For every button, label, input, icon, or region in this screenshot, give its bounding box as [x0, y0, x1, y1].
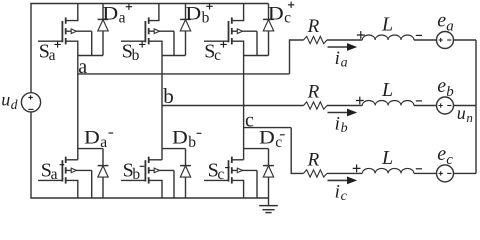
wire node c drop to phase branch: [291, 128, 303, 174]
wire R to L (phase a): [327, 39, 362, 41]
polarity − (phase a): [416, 34, 422, 36]
voltage source u_d: [21, 93, 40, 112]
svg-text:D: D: [172, 128, 188, 149]
polarity + (phase c): [353, 165, 361, 173]
svg-text:L: L: [381, 14, 393, 36]
svg-text:u: u: [1, 90, 10, 110]
label e_b: [437, 75, 454, 100]
svg-text:b: b: [163, 84, 174, 108]
svg-text:R: R: [307, 16, 320, 37]
current arrow i_c: [328, 177, 358, 185]
svg-text:n: n: [466, 110, 473, 125]
polarity + (phase a): [357, 31, 365, 39]
svg-text:a: a: [119, 10, 126, 27]
polarity − (phase b): [416, 100, 422, 102]
inductor L (phase a): [362, 35, 414, 40]
svg-text:L: L: [381, 79, 393, 101]
label Db+: [185, 3, 212, 27]
transistor Sa- (lower switch): [38, 157, 92, 198]
svg-text:c: c: [284, 10, 291, 27]
label u_d: [1, 90, 18, 112]
svg-text:D: D: [102, 3, 118, 24]
transistor Sb+ (upper switch): [121, 4, 174, 56]
svg-text:R: R: [307, 82, 320, 103]
label i_c: [335, 181, 348, 204]
back-emf source e_b: [437, 97, 454, 114]
svg-text:a: a: [341, 56, 348, 71]
wire leg b vertical (node b to lower switch): [161, 56, 163, 160]
label u_n (neutral voltage): [457, 103, 473, 125]
resistor R (phase b): [304, 102, 327, 109]
svg-text:R: R: [307, 150, 320, 171]
wire node a horizontal: [78, 73, 290, 75]
label Da-: [84, 128, 113, 151]
svg-text:b: b: [188, 134, 196, 151]
diode Dc- (lower freewheel): [263, 149, 274, 198]
wire top DC+ rail: [30, 3, 268, 5]
ground: [259, 198, 278, 213]
svg-text:c: c: [341, 189, 348, 204]
svg-text:a: a: [78, 56, 87, 78]
diode Db- (lower freewheel): [180, 149, 191, 198]
label Dc+: [268, 2, 294, 27]
label e_c: [437, 143, 453, 168]
label i_a: [335, 48, 348, 71]
wire L to e_c: [414, 172, 437, 174]
svg-text:b: b: [132, 166, 140, 183]
wire bottom DC- rail: [30, 197, 268, 199]
svg-text:D: D: [259, 128, 275, 149]
back-emf source e_c: [437, 165, 454, 182]
inductor L (phase b): [362, 100, 414, 105]
resistor R (phase c): [304, 170, 327, 177]
label Da+: [102, 3, 132, 26]
back-emf source e_a: [437, 32, 454, 49]
svg-text:e: e: [437, 143, 446, 165]
inductor L (phase c): [362, 168, 414, 173]
wire R to L (phase b): [327, 105, 362, 107]
wire node c horizontal: [244, 127, 292, 129]
wire node a riser to phase branch: [290, 40, 304, 74]
wire upper emitter junction leg b: [162, 55, 186, 57]
label Sa+: [39, 41, 61, 64]
wire left DC rail lower segment: [30, 112, 32, 198]
wire R to L (phase c): [327, 172, 362, 174]
svg-text:e: e: [437, 75, 446, 97]
svg-text:b: b: [132, 47, 140, 64]
svg-text:e: e: [437, 10, 446, 32]
transistor Sb- (lower switch): [121, 157, 174, 198]
svg-text:a: a: [446, 19, 454, 35]
resistor R (phase a): [304, 36, 327, 43]
svg-text:b: b: [202, 10, 210, 27]
svg-text:b: b: [446, 84, 454, 100]
wire leg a vertical (node a to lower switch): [77, 56, 79, 160]
svg-text:c: c: [446, 152, 453, 168]
transistor Sc- (lower switch): [204, 157, 257, 198]
svg-text:d: d: [11, 97, 18, 112]
svg-text:c: c: [217, 166, 224, 183]
label Db-: [172, 128, 201, 151]
wire L to e_a: [414, 39, 437, 41]
wire lower collector junction leg c: [244, 148, 269, 150]
label Sa-: [41, 160, 65, 183]
wire neutral rail (right): [475, 40, 477, 173]
current arrow i_a: [328, 43, 358, 51]
current arrow i_b: [328, 109, 358, 117]
label Sc-: [208, 160, 230, 183]
svg-text:D: D: [84, 128, 100, 149]
label Sc+: [204, 41, 226, 64]
svg-text:u: u: [457, 103, 466, 123]
polarity − (phase c): [416, 168, 422, 170]
svg-text:a: a: [51, 166, 58, 183]
svg-text:a: a: [49, 47, 56, 64]
wire node b horizontal: [162, 105, 304, 107]
transistor Sa+ (upper switch): [38, 4, 92, 56]
label e_a: [437, 10, 453, 35]
polarity + (phase b): [356, 97, 364, 105]
svg-text:D: D: [185, 3, 201, 24]
svg-text:D: D: [268, 3, 284, 24]
diode Da+ (upper freewheel): [98, 4, 109, 56]
wire upper emitter junction leg c: [244, 55, 269, 57]
diode Dc+ (upper freewheel): [263, 4, 274, 56]
label Dc-: [259, 128, 285, 151]
svg-text:a: a: [100, 134, 107, 151]
wire left DC rail upper segment: [30, 4, 32, 93]
wire e_c to neutral rail: [454, 172, 477, 174]
wire e_b to neutral rail: [454, 105, 477, 107]
svg-text:i: i: [335, 48, 340, 69]
wire lower collector junction leg b: [162, 148, 186, 150]
diode Da- (lower freewheel): [98, 149, 109, 198]
wire lower collector junction leg a: [78, 148, 103, 150]
label i_b: [335, 114, 348, 137]
svg-text:b: b: [341, 121, 348, 136]
svg-text:c: c: [214, 47, 221, 64]
diode Db+ (upper freewheel): [180, 4, 191, 56]
wire upper emitter junction leg a: [78, 55, 103, 57]
label Sb+: [122, 41, 146, 64]
label Sb-: [123, 160, 145, 183]
wire L to e_b: [414, 105, 437, 107]
wire e_a to neutral rail: [454, 39, 477, 41]
svg-text:i: i: [335, 181, 340, 202]
wire leg c vertical (node c to lower switch): [243, 56, 245, 160]
svg-text:i: i: [335, 114, 340, 135]
svg-text:c: c: [275, 134, 282, 151]
svg-text:L: L: [381, 147, 393, 169]
transistor Sc+ (upper switch): [204, 4, 257, 56]
